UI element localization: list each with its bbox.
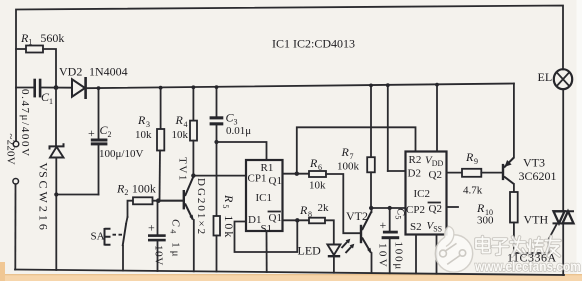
svg-text:S1: S1 — [261, 223, 273, 235]
svg-text:0.01μ: 0.01μ — [226, 125, 251, 137]
svg-text:Q2: Q2 — [429, 169, 442, 181]
svg-text:CP1: CP1 — [248, 173, 267, 185]
svg-text:100μ/10V: 100μ/10V — [99, 148, 143, 160]
svg-text:DG201×2: DG201×2 — [195, 178, 207, 236]
svg-text:R: R — [175, 113, 184, 127]
svg-text:0.47μ/400V: 0.47μ/400V — [19, 89, 31, 158]
svg-text:4.7k: 4.7k — [463, 185, 483, 197]
svg-text:TV1: TV1 — [177, 157, 189, 182]
svg-text:2: 2 — [108, 130, 112, 139]
svg-text:3: 3 — [146, 120, 150, 129]
svg-text:R5 10k: R5 10k — [221, 194, 236, 239]
svg-text:R: R — [299, 203, 308, 217]
svg-text:VD2: VD2 — [59, 65, 82, 79]
svg-text:D1: D1 — [248, 214, 261, 226]
svg-text:10V: 10V — [153, 245, 165, 266]
svg-text:LED: LED — [298, 244, 322, 258]
svg-text:SA: SA — [91, 231, 105, 243]
svg-text:1: 1 — [49, 97, 53, 106]
svg-text:VT2: VT2 — [346, 209, 368, 223]
svg-text:Q2: Q2 — [429, 203, 442, 215]
svg-text:8: 8 — [308, 210, 312, 219]
svg-text:100k: 100k — [337, 161, 360, 173]
svg-text:10k: 10k — [135, 129, 152, 141]
svg-text:R: R — [465, 150, 474, 164]
svg-text:10k: 10k — [309, 180, 326, 192]
svg-text:VTH: VTH — [524, 213, 549, 227]
svg-text:IC1 IC2:CD4013: IC1 IC2:CD4013 — [272, 37, 355, 51]
svg-text:3C6201: 3C6201 — [519, 169, 557, 183]
svg-text:+: + — [380, 218, 387, 232]
svg-text:R: R — [341, 145, 350, 159]
svg-text:300: 300 — [477, 215, 494, 227]
svg-text:11C336A: 11C336A — [507, 251, 557, 265]
svg-text:100μ: 100μ — [393, 242, 405, 272]
svg-text:S2: S2 — [410, 221, 422, 233]
svg-text:4: 4 — [184, 120, 188, 129]
svg-text:+: + — [88, 126, 95, 140]
svg-text:VS: VS — [37, 163, 51, 178]
svg-text:10k: 10k — [172, 129, 189, 141]
svg-text:R2100k: R2100k — [116, 182, 156, 198]
svg-text:IC2: IC2 — [414, 188, 431, 200]
svg-text:C4 1μ: C4 1μ — [169, 219, 182, 260]
svg-text:6: 6 — [318, 163, 322, 172]
svg-text:R: R — [476, 201, 485, 215]
svg-text:VT3: VT3 — [523, 156, 545, 170]
svg-text:R2: R2 — [409, 154, 422, 166]
svg-text:Q1: Q1 — [269, 175, 282, 187]
svg-text:IC1: IC1 — [256, 192, 273, 204]
svg-text:+: + — [148, 221, 155, 235]
svg-text:1N4004: 1N4004 — [89, 65, 128, 79]
svg-text:9: 9 — [474, 157, 478, 166]
svg-text:R: R — [137, 113, 146, 127]
svg-text:R1 560k: R1 560k — [20, 31, 64, 47]
svg-text:D2: D2 — [408, 168, 421, 180]
svg-text:~220V: ~220V — [5, 134, 17, 165]
svg-text:CW216: CW216 — [37, 181, 51, 233]
svg-text:R: R — [309, 156, 318, 170]
svg-text:2k: 2k — [318, 202, 330, 214]
svg-text:CP2: CP2 — [406, 204, 425, 216]
svg-text:10V: 10V — [377, 243, 389, 269]
svg-text:EL: EL — [538, 70, 553, 84]
